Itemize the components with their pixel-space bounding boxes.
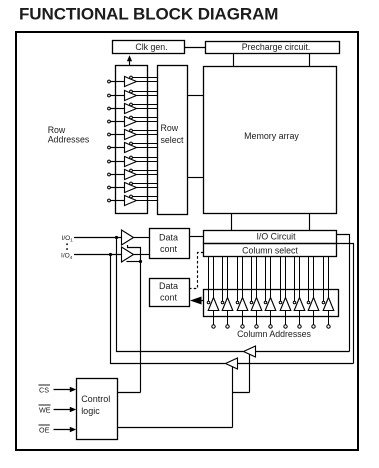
- svg-text:Column Addresses: Column Addresses: [237, 329, 311, 339]
- output buffer A: [244, 346, 256, 357]
- svg-text:Clk gen.: Clk gen.: [135, 42, 167, 52]
- svg-text:OE: OE: [39, 425, 50, 434]
- svg-text:Control: Control: [81, 394, 110, 404]
- block Control logic: [77, 379, 118, 440]
- column address buffer B5: [279, 257, 291, 329]
- block Memory array: [204, 67, 337, 214]
- svg-text:I/O Circuit: I/O Circuit: [256, 231, 296, 241]
- dashed wire Column select to Data cont lower: [190, 253, 204, 289]
- wire Memory array to I/O Circuit right: [309, 214, 311, 231]
- svg-text:Row: Row: [161, 123, 179, 133]
- column address buffer B7: [307, 257, 319, 329]
- column address buffer B1: [221, 257, 233, 329]
- arrow column buffers to Data cont lower: [190, 297, 204, 305]
- wire Data cont to I/O Circuit: [190, 236, 204, 238]
- block Clk gen U1: [113, 41, 185, 54]
- block Data cont lower: [150, 279, 190, 307]
- row address buffer A5: [108, 142, 158, 152]
- wire I/O Circuit upper stub: [337, 235, 350, 352]
- ellipsis between I/O labels: [66, 243, 68, 250]
- input buffer lower: [122, 247, 134, 262]
- column address buffer B3: [250, 257, 262, 329]
- column address buffer B6: [293, 257, 305, 329]
- column address buffer B8: [322, 257, 334, 329]
- wire Row select to Memory array lower: [188, 177, 204, 179]
- row address buffer A8: [108, 182, 158, 192]
- wire output buffer B to I/O4: [111, 255, 226, 364]
- svg-text:logic: logic: [81, 406, 100, 416]
- wire control to input buffer enables: [118, 392, 141, 394]
- row address buffer A3: [108, 116, 158, 126]
- svg-text:CS: CS: [39, 385, 49, 394]
- row address buffer A7: [108, 169, 158, 179]
- wire I/O1 input: [74, 236, 122, 239]
- block I/O Circuit: [204, 231, 337, 244]
- svg-text:Column select: Column select: [242, 245, 298, 255]
- wire I/O4 input: [74, 253, 122, 256]
- arrow row address buffers to Clk gen: [127, 55, 132, 65]
- column address buffer B2: [236, 257, 248, 329]
- svg-text:select: select: [161, 135, 185, 145]
- wire Memory array to I/O Circuit left: [231, 214, 233, 231]
- wire Precharge to Memory array left: [233, 54, 235, 67]
- wire input buffer upper to Data cont: [134, 237, 150, 239]
- wire to output buffer B input: [238, 363, 354, 365]
- arrow CS input: [54, 387, 77, 392]
- block Row select: [158, 66, 188, 215]
- row address buffer A1: [108, 90, 158, 100]
- wire Precharge to Memory array right: [309, 54, 311, 67]
- block Column select: [204, 244, 337, 257]
- wire output buffer enables: [233, 355, 250, 428]
- svg-text:Row: Row: [48, 125, 66, 135]
- wire input buffer lower to Data cont: [134, 254, 150, 256]
- wire input buffer enables: [127, 245, 143, 393]
- block Precharge circuit: [206, 42, 340, 54]
- row address buffer A4: [108, 129, 158, 139]
- input buffer upper: [122, 230, 134, 245]
- output buffer B: [226, 358, 238, 369]
- svg-text:Memory array: Memory array: [244, 131, 299, 141]
- svg-text:Precharge circuit.: Precharge circuit.: [242, 42, 310, 52]
- row address buffer A6: [108, 156, 158, 166]
- arrow WE input: [54, 407, 77, 412]
- row address buffer A0: [108, 76, 158, 86]
- label Row Addresses: [48, 125, 90, 145]
- column address buffer box: [204, 290, 339, 317]
- svg-text:Data: Data: [159, 281, 178, 291]
- wire to output buffer A input: [256, 351, 350, 353]
- wire Clk gen to Precharge: [185, 47, 206, 49]
- label OE with overline: [39, 425, 50, 434]
- label WE with overline: [39, 405, 51, 414]
- wire Row select to Memory array upper: [188, 95, 204, 97]
- column address buffer B4: [264, 257, 276, 329]
- svg-text:cont: cont: [160, 293, 178, 303]
- row address buffer A9: [108, 195, 158, 205]
- wire output buffer A to I/O1: [117, 238, 244, 352]
- row address buffer A2: [108, 103, 158, 113]
- arrow OE input: [54, 427, 77, 432]
- svg-text:FUNCTIONAL BLOCK DIAGRAM: FUNCTIONAL BLOCK DIAGRAM: [19, 5, 278, 24]
- svg-text:Data: Data: [159, 232, 178, 242]
- wire control to output buffer enables: [118, 427, 233, 429]
- column address buffer B0: [207, 257, 219, 329]
- row address buffer box: [116, 66, 148, 214]
- block Data cont upper: [150, 229, 190, 259]
- svg-text:Addresses: Addresses: [48, 135, 90, 145]
- svg-text:cont: cont: [160, 244, 178, 254]
- label CS with overline: [39, 385, 51, 394]
- wire divider extension right: [337, 244, 354, 364]
- svg-text:WE: WE: [39, 405, 51, 414]
